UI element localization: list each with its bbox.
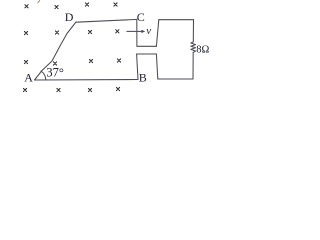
top rail (159, 19, 194, 21)
wire DC (top side) (76, 19, 137, 22)
upper mid vertical (156, 20, 158, 47)
stray orange tick artifact top (38, 0, 40, 3)
svg-text:C: C (137, 10, 145, 24)
svg-text:8Ω: 8Ω (196, 44, 209, 55)
svg-text:v: v (146, 25, 151, 37)
bottom rail (158, 78, 193, 80)
svg-text:37°: 37° (46, 66, 64, 80)
angle arc at A (41, 71, 46, 80)
velocity arrow v (127, 30, 146, 33)
lower lead horizontal (137, 53, 157, 55)
right vertical from resistor bottom (192, 52, 194, 79)
upper lead horizontal (137, 45, 157, 47)
wire AB (bottom side) (35, 79, 139, 82)
wire B terminal up (137, 54, 138, 80)
svg-text:B: B (139, 71, 147, 85)
magnetic field region (B into page) x-marks (23, 3, 120, 92)
resistor R 8ohm zigzag (191, 42, 196, 53)
right vertical to resistor top (192, 20, 194, 42)
bottom mid vertical (156, 54, 157, 79)
wire AD (slanted side, 37 deg label) (35, 22, 77, 80)
svg-text:A: A (24, 70, 33, 84)
svg-text:D: D (65, 10, 74, 24)
wire C terminal down (136, 19, 138, 46)
